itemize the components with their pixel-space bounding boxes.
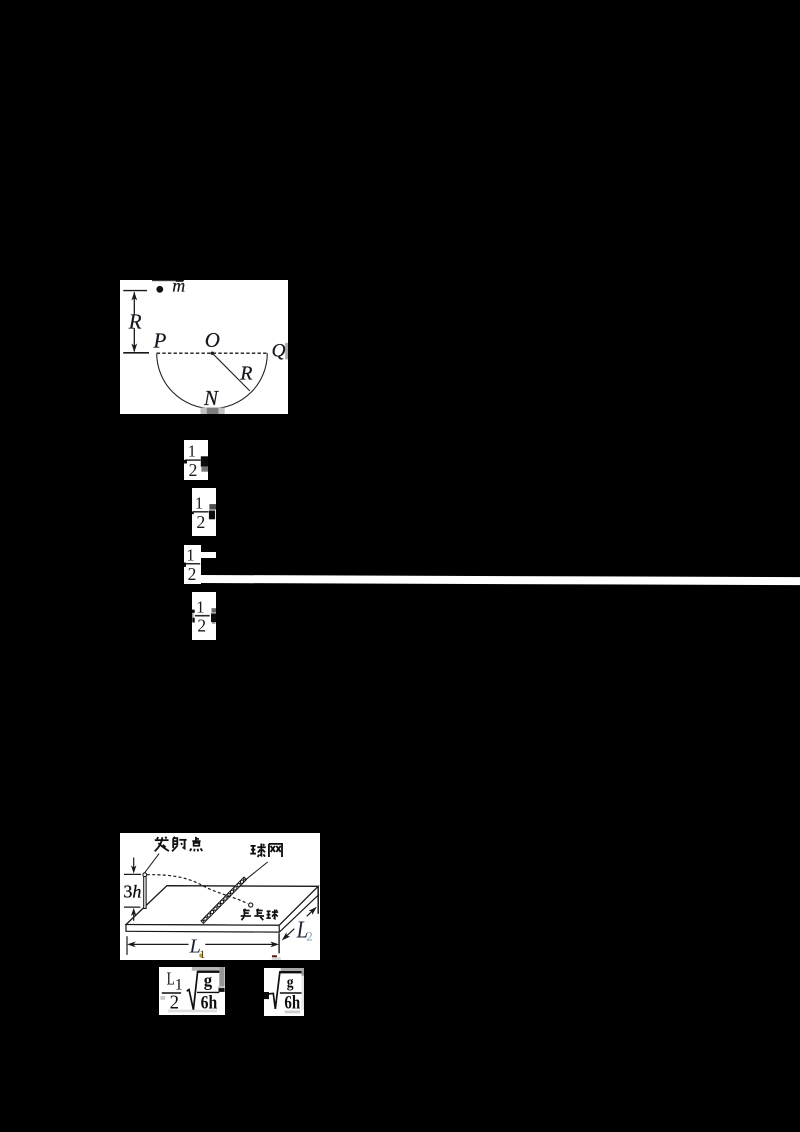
dashed trajectory of ball	[146, 874, 247, 903]
3h dimension: down arrow	[131, 857, 136, 873]
svg-text:2: 2	[189, 460, 198, 480]
svg-text:2: 2	[196, 512, 205, 532]
svg-text:6h: 6h	[284, 992, 300, 1012]
svg-text:Q: Q	[271, 340, 285, 361]
radical	[268, 971, 302, 1008]
svg-text:2: 2	[306, 928, 313, 943]
fraction bar	[185, 459, 200, 461]
L2 dimension arrows	[281, 906, 316, 940]
fraction bar	[184, 563, 200, 565]
3h dimension: top tick	[124, 873, 141, 875]
svg-text:1: 1	[196, 597, 204, 616]
mass m dot	[156, 286, 163, 293]
yellow artifact under L1 subscript	[199, 953, 202, 956]
R dimension arrow (vertical, double-headed)	[131, 292, 137, 352]
svg-text:P: P	[152, 328, 166, 352]
net (crosshatched strip)	[201, 877, 247, 923]
top edge dark notch	[152, 280, 184, 281]
3h dimension: up arrow	[131, 908, 136, 921]
launch pole	[143, 876, 145, 908]
table top surface	[126, 885, 318, 925]
L1 dimension: right tick	[278, 933, 280, 953]
svg-text:m: m	[172, 280, 185, 295]
label 球网 (net)	[250, 843, 282, 856]
radius line O to arc	[212, 353, 249, 391]
svg-text:L: L	[167, 969, 175, 989]
center dot O	[210, 351, 213, 354]
leader line from 发射点 to launch point	[144, 853, 158, 872]
svg-text:6h: 6h	[201, 993, 218, 1014]
svg-text:g: g	[286, 974, 293, 991]
leader line from 球网 to net	[243, 862, 267, 881]
svg-text:2: 2	[197, 615, 206, 635]
dashed diameter P to Q	[156, 352, 267, 354]
fraction bar	[195, 614, 210, 616]
light gray smudge bottom	[271, 957, 280, 960]
svg-text:N: N	[203, 386, 219, 410]
table right-bottom slanted edge	[279, 894, 319, 932]
black "1"-like mark at left edge	[264, 992, 269, 999]
launch point circle	[143, 873, 147, 877]
3h dimension: bottom tick	[124, 906, 140, 908]
label 乒乓球 (ping-pong ball)	[240, 909, 277, 920]
gray pedestal under N	[200, 407, 224, 414]
radical	[187, 972, 220, 1010]
svg-text:R: R	[239, 362, 252, 384]
L1 dimension arrow	[127, 941, 279, 947]
long white horizontal line to page right edge	[201, 575, 800, 585]
table front face	[126, 924, 279, 932]
svg-text:2: 2	[170, 992, 179, 1014]
fraction bar	[193, 511, 209, 513]
ping-pong ball	[248, 903, 252, 907]
dark red artifact right	[272, 955, 277, 957]
semicircle arc	[156, 353, 267, 408]
svg-text:2: 2	[188, 564, 197, 584]
label 发射点 (launch point)	[154, 837, 202, 852]
svg-text:R: R	[128, 309, 142, 333]
bottom reference tick	[123, 352, 149, 354]
table right-rear vertical edge / L2 extension line	[317, 887, 319, 914]
svg-text:O: O	[205, 328, 220, 352]
short white bar right of fraction 3 numerator	[201, 552, 216, 558]
top reference tick	[123, 289, 147, 291]
L1 dimension: left tick	[126, 936, 128, 955]
svg-text:1: 1	[187, 546, 195, 565]
gray bar right of Q	[285, 343, 288, 359]
svg-text:1: 1	[188, 441, 196, 460]
svg-text:1: 1	[195, 493, 203, 512]
svg-text:3h: 3h	[123, 881, 141, 901]
dark artifact notch right	[201, 456, 208, 466]
svg-text:g: g	[204, 970, 213, 990]
